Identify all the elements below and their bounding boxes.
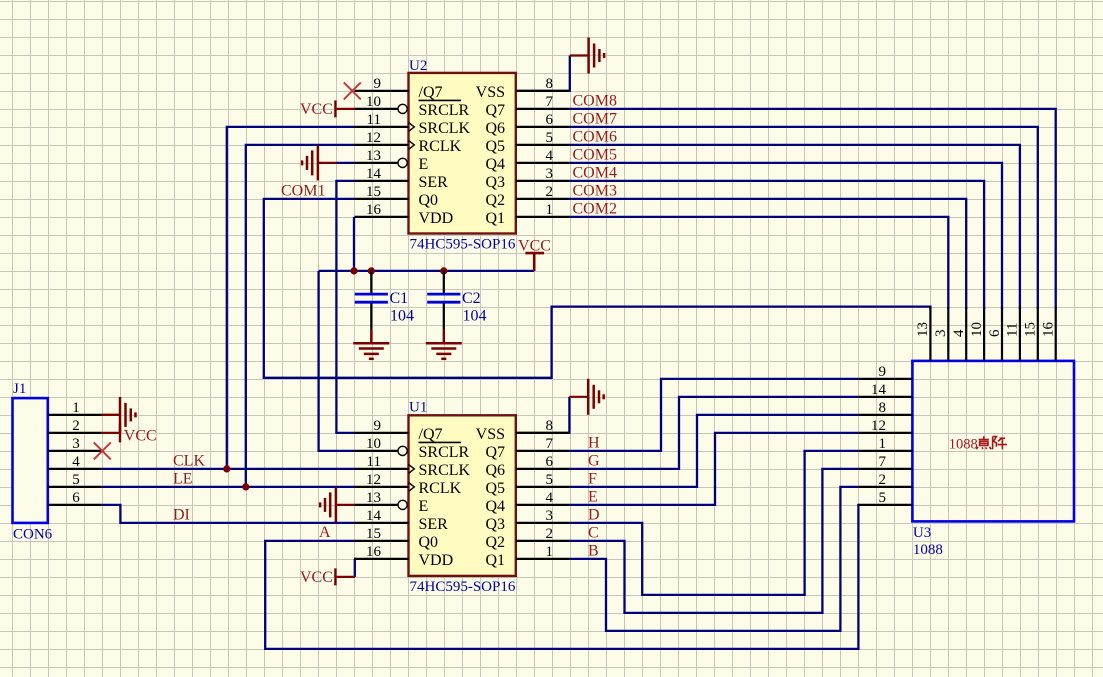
svg-text:SRCLR: SRCLR — [419, 102, 470, 119]
wire COM6: U2 to U3 — [569, 145, 1020, 309]
svg-text:CON6: CON6 — [13, 527, 53, 543]
wire B net: U1 Q1 to U3 pin2 — [569, 487, 858, 631]
svg-text:104: 104 — [390, 308, 414, 325]
svg-text:J1: J1 — [13, 381, 26, 397]
U1 pin 1 (Q1) — [485, 544, 569, 569]
U2 pin 10 (SRCLR) — [355, 94, 470, 119]
U1 pin 2 (Q2) — [485, 526, 569, 551]
svg-text:1: 1 — [879, 436, 887, 452]
U2 pin 16 (VDD) — [355, 202, 454, 227]
J1 pin 3 — [48, 450, 102, 452]
svg-text:6: 6 — [546, 454, 554, 470]
svg-text:E: E — [419, 498, 429, 515]
svg-text:Q0: Q0 — [419, 192, 439, 209]
svg-text:VCC: VCC — [300, 569, 333, 586]
capacitor C2 — [427, 271, 460, 330]
VCC port at rail — [518, 238, 551, 271]
VCC port at J1 pin2 — [102, 423, 157, 444]
U2 pin 3 (Q3) — [485, 166, 569, 191]
svg-text:14: 14 — [366, 508, 382, 524]
wire A net: U1 Q0 to U3 pin5 — [265, 505, 859, 649]
svg-text:U2: U2 — [409, 58, 427, 74]
svg-text:VSS: VSS — [476, 84, 505, 101]
svg-text:6: 6 — [72, 490, 80, 506]
svg-text:9: 9 — [374, 418, 382, 434]
svg-text:C1: C1 — [390, 290, 409, 307]
svg-text:COM4: COM4 — [573, 165, 617, 182]
svg-text:1: 1 — [546, 544, 554, 560]
svg-text:1: 1 — [546, 202, 554, 218]
svg-text:E: E — [419, 156, 429, 173]
U3 pin 7 (left) — [858, 454, 912, 470]
svg-text:2: 2 — [546, 184, 554, 200]
svg-text:1: 1 — [72, 400, 80, 416]
svg-text:12: 12 — [366, 130, 381, 146]
svg-text:Q7: Q7 — [485, 102, 505, 119]
svg-text:14: 14 — [871, 382, 887, 398]
svg-text:1088: 1088 — [913, 542, 943, 558]
svg-text:/Q7: /Q7 — [419, 426, 443, 443]
J1 pin 4 — [48, 468, 102, 470]
svg-text:4: 4 — [72, 454, 80, 470]
U1 pin 6 (Q6) — [485, 454, 569, 479]
svg-text:VCC: VCC — [124, 427, 157, 444]
U2 pin 11 (SRCLK) — [355, 112, 471, 137]
svg-text:B: B — [588, 543, 599, 560]
J1 pin 5 — [48, 486, 102, 488]
ground at J1 pin1 — [102, 397, 136, 433]
ground at U1 pin13 — [320, 487, 355, 522]
svg-text:SRCLK: SRCLK — [419, 462, 471, 479]
svg-text:8: 8 — [879, 400, 887, 416]
svg-text:5: 5 — [546, 472, 554, 488]
ground at U2 VSS (top) — [570, 38, 604, 74]
U2 pin 14 (SER) — [355, 166, 449, 191]
junction CLK — [223, 465, 230, 472]
svg-text:9: 9 — [879, 364, 887, 380]
wire COM4: U2 to U3 — [569, 181, 984, 309]
wire CLK net: J1 pin4 to U1 SRCLK — [102, 468, 355, 470]
svg-text:C2: C2 — [462, 290, 481, 307]
U1 pin 7 (Q7) — [485, 436, 569, 461]
U1 pin 14 (SER) — [355, 508, 449, 533]
wire COM1 net: U2 Q0 down, across, up to U3 pin13 — [264, 199, 931, 378]
wire U2 VDD to rail — [353, 217, 355, 271]
U1 pin 3 (Q3) — [485, 508, 569, 533]
U2 pin 8 (VSS) — [476, 76, 570, 101]
U2 pin 15 (Q0) — [355, 184, 439, 209]
svg-text:5: 5 — [72, 472, 80, 488]
svg-text:CLK: CLK — [173, 453, 205, 470]
U1 pin 15 (Q0) — [355, 526, 439, 551]
svg-text:11: 11 — [1005, 323, 1021, 337]
svg-text:U1: U1 — [409, 400, 427, 416]
svg-text:16: 16 — [366, 202, 382, 218]
wire COM8: U2 to U3 — [569, 109, 1055, 309]
U2 pin 5 (Q5) — [485, 130, 569, 155]
U1 pin 4 (Q4) — [485, 490, 569, 515]
wire U2 VSS up to ground — [516, 90, 570, 92]
svg-text:2: 2 — [72, 418, 80, 434]
svg-text:SRCLK: SRCLK — [419, 120, 471, 137]
svg-text:4: 4 — [546, 490, 554, 506]
no-connect X at J1 pin3 — [94, 442, 111, 459]
U1 pin 9 (/Q7) — [355, 418, 443, 443]
svg-text:Q4: Q4 — [485, 156, 505, 173]
wire CLK branch up to U2 SRCLK — [227, 127, 355, 469]
U3 pin 9 (left) — [858, 364, 912, 380]
U3 pin 16 (top) — [1041, 307, 1057, 361]
svg-text:COM3: COM3 — [573, 183, 617, 200]
svg-text:5: 5 — [879, 490, 887, 506]
svg-text:4: 4 — [951, 329, 967, 337]
svg-text:13: 13 — [366, 490, 381, 506]
svg-text:3: 3 — [933, 330, 949, 338]
svg-text:5: 5 — [546, 130, 554, 146]
U2 SRCLR overline — [419, 99, 462, 101]
junction C1 / rail — [368, 267, 375, 274]
svg-text:7: 7 — [546, 94, 554, 110]
svg-text:1088: 1088 — [949, 436, 978, 452]
svg-text:8: 8 — [546, 76, 554, 92]
dot-matrix U3 body — [912, 361, 1074, 522]
op U2 74HC595 body — [409, 73, 516, 234]
svg-text:15: 15 — [366, 184, 381, 200]
VCC port at U1 VDD — [300, 568, 355, 586]
svg-text:C: C — [588, 525, 599, 542]
wire COM7: U2 to U3 — [569, 127, 1037, 309]
svg-text:15: 15 — [366, 526, 381, 542]
svg-text:16: 16 — [366, 544, 382, 560]
svg-text:Q6: Q6 — [485, 462, 505, 479]
wire E net: U1 Q4 to U3 pin12 — [569, 433, 858, 505]
U1 pin 8 (VSS) — [476, 418, 570, 443]
wire LE net: J1 pin5 to U1 RCLK — [102, 486, 355, 488]
svg-text:Q3: Q3 — [485, 174, 505, 191]
junction C2 / rail — [440, 267, 447, 274]
junction LE — [242, 483, 249, 490]
U3 pin 11 (top) — [1005, 307, 1021, 361]
svg-text:Q5: Q5 — [485, 138, 505, 155]
U2 pin 1 (Q1) — [485, 202, 569, 227]
svg-text:D: D — [588, 507, 600, 524]
U2 pin 13 (E) — [355, 148, 429, 173]
svg-text:/Q7: /Q7 — [419, 84, 443, 101]
svg-text:3: 3 — [546, 166, 554, 182]
svg-text:RCLK: RCLK — [419, 480, 462, 497]
svg-text:Q1: Q1 — [485, 210, 505, 227]
svg-text:15: 15 — [1023, 322, 1039, 337]
wire DI net: J1 pin6 to U1 SER — [102, 505, 355, 523]
svg-text:COM6: COM6 — [573, 129, 617, 146]
svg-text:Q0: Q0 — [419, 534, 439, 551]
U3 pin 1 (left) — [858, 436, 912, 452]
U1 SRCLR overline — [419, 441, 462, 443]
wire D net: U1 Q3 to U3 pin1 — [569, 451, 858, 595]
U3 pin 13 (top) — [915, 307, 931, 361]
U3 pin 5 (left) — [858, 490, 912, 506]
junction U2 VDD / rail — [350, 267, 357, 274]
svg-text:12: 12 — [366, 472, 381, 488]
svg-text:74HC595-SOP16: 74HC595-SOP16 — [410, 579, 516, 595]
svg-text:VSS: VSS — [476, 426, 505, 443]
svg-text:6: 6 — [987, 329, 1003, 337]
svg-text:COM1: COM1 — [281, 183, 325, 200]
U1 pin 5 (Q5) — [485, 472, 569, 497]
U1 pin 11 (SRCLK) — [355, 454, 471, 479]
U2 pin 6 (Q6) — [485, 112, 569, 137]
svg-text:SRCLR: SRCLR — [419, 444, 470, 461]
U1 pin 12 (RCLK) — [355, 472, 462, 497]
U2 pin 7 (Q7) — [485, 94, 569, 119]
wire rail to U1 SRCLR — [319, 271, 355, 451]
J1 pin 1 — [48, 414, 102, 416]
U3 pin 8 (left) — [858, 400, 912, 416]
svg-text:COM5: COM5 — [573, 147, 617, 164]
svg-text:10: 10 — [366, 94, 381, 110]
svg-text:11: 11 — [367, 454, 381, 470]
svg-text:SER: SER — [419, 516, 449, 533]
svg-text:3: 3 — [546, 508, 554, 524]
ground at U1 VSS — [569, 379, 603, 415]
svg-text:SER: SER — [419, 174, 449, 191]
svg-text:14: 14 — [366, 166, 382, 182]
svg-text:VDD: VDD — [419, 210, 454, 227]
svg-text:2: 2 — [546, 526, 554, 542]
wire COM2: U2 to U3 — [569, 217, 948, 309]
svg-text:74HC595-SOP16: 74HC595-SOP16 — [410, 237, 516, 253]
svg-text:Q6: Q6 — [485, 120, 505, 137]
svg-text:16: 16 — [1041, 322, 1057, 338]
svg-text:A: A — [319, 524, 331, 541]
U3 pin 10 (top) — [969, 307, 985, 361]
U3 pin 12 (left) — [858, 418, 912, 434]
svg-text:DI: DI — [173, 507, 190, 524]
svg-text:COM8: COM8 — [573, 93, 617, 110]
svg-text:11: 11 — [367, 112, 381, 128]
U3 pin 14 (left) — [858, 382, 912, 398]
ground below C1 — [353, 330, 389, 359]
capacitor C1 — [355, 271, 388, 330]
svg-text:8: 8 — [546, 418, 554, 434]
ground below C2 — [426, 330, 462, 359]
U2 pin 4 (Q4) — [485, 148, 569, 173]
U2 pin 2 (Q2) — [485, 184, 569, 209]
wire U1 VSS up to ground — [516, 432, 570, 434]
svg-text:VCC: VCC — [518, 238, 551, 255]
svg-text:G: G — [588, 453, 600, 470]
wire U2 SER from U1 /Q7 cascade — [336, 181, 354, 433]
U1 pin 13 (E) — [355, 490, 429, 515]
U3 pin 2 (left) — [858, 472, 912, 488]
svg-text:COM7: COM7 — [573, 111, 617, 128]
wire COM3: U2 to U3 — [569, 199, 966, 309]
svg-text:Q2: Q2 — [485, 534, 505, 551]
J1 pin 2 — [48, 432, 102, 434]
J1 pin1 wire to ground — [102, 414, 120, 416]
wire COM5: U2 to U3 — [569, 163, 1002, 309]
svg-text:VCC: VCC — [300, 101, 333, 118]
U2 pin 12 (RCLK) — [355, 130, 462, 155]
svg-text:Q2: Q2 — [485, 192, 505, 209]
J1 pin 6 — [48, 504, 102, 506]
wire G net: U1 Q6 to U3 pin14 — [569, 397, 858, 469]
wire U1 VDD to VCC port — [353, 559, 356, 577]
wire C net: U1 Q2 to U3 pin7 — [569, 469, 858, 613]
svg-text:7: 7 — [546, 436, 554, 452]
svg-text:4: 4 — [546, 148, 554, 164]
U3 pin 4 (top) — [951, 307, 967, 361]
svg-text:Q1: Q1 — [485, 552, 505, 569]
svg-text:H: H — [588, 435, 600, 452]
svg-text:Q7: Q7 — [485, 444, 505, 461]
svg-text:E: E — [588, 489, 598, 506]
U1 pin 16 (VDD) — [355, 544, 454, 569]
svg-text:F: F — [588, 471, 597, 488]
wire LE branch up to U2 RCLK — [246, 145, 355, 487]
svg-text:U3: U3 — [913, 525, 931, 541]
U1 pin 10 (SRCLR) — [355, 436, 470, 461]
U2 pin 9 (/Q7) — [355, 76, 443, 101]
U3 pin 3 (top) — [933, 307, 949, 361]
svg-text:6: 6 — [546, 112, 554, 128]
svg-text:VDD: VDD — [419, 552, 454, 569]
op U1 74HC595 body — [409, 415, 516, 576]
connector J1 body — [13, 398, 48, 523]
wire F net: U1 Q5 to U3 pin8 — [569, 415, 858, 487]
svg-text:2: 2 — [879, 472, 887, 488]
svg-text:10: 10 — [366, 436, 381, 452]
svg-text:9: 9 — [374, 76, 382, 92]
svg-text:RCLK: RCLK — [419, 138, 462, 155]
svg-text:10: 10 — [969, 322, 985, 337]
svg-text:7: 7 — [879, 454, 887, 470]
ground at U2 pin13 — [337, 162, 355, 164]
svg-text:12: 12 — [871, 418, 886, 434]
wire H net: U1 Q7 to U3 pin9 — [569, 379, 858, 451]
U3 pin 6 (top) — [987, 307, 1003, 361]
svg-text:Q5: Q5 — [485, 480, 505, 497]
svg-text:13: 13 — [915, 322, 931, 337]
svg-text:Q4: Q4 — [485, 498, 505, 515]
svg-text:LE: LE — [173, 471, 193, 488]
svg-text:Q3: Q3 — [485, 516, 505, 533]
VCC port at U2 pin10 — [300, 100, 355, 118]
no-connect X at U2 pin9 — [344, 82, 361, 99]
svg-text:3: 3 — [72, 436, 80, 452]
wire VCC rail — [319, 270, 535, 272]
svg-text:13: 13 — [366, 148, 381, 164]
svg-text:COM2: COM2 — [573, 201, 617, 218]
svg-text:104: 104 — [463, 308, 487, 325]
U3 pin 15 (top) — [1023, 307, 1039, 361]
